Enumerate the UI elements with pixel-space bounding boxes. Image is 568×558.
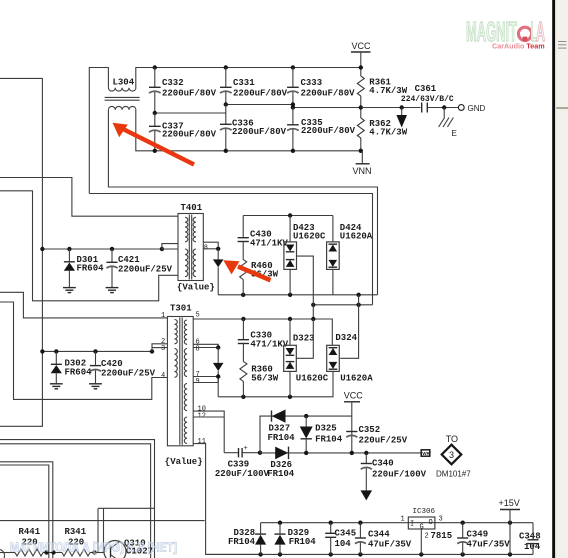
- svg-text:U1620A: U1620A: [340, 231, 373, 241]
- svg-text:4: 4: [161, 372, 165, 380]
- node VNN: [353, 151, 372, 176]
- svg-text:2200uF/80V: 2200uF/80V: [162, 130, 217, 140]
- svg-text:FR604: FR604: [77, 264, 105, 274]
- svg-text:C345: C345: [335, 528, 357, 538]
- diode D301 FR604: [64, 249, 104, 287]
- diode D302 FR604: [51, 351, 92, 383]
- svg-text:T401: T401: [181, 203, 203, 213]
- wire C430 top bus to D423/D424: [243, 215, 333, 217]
- svg-text:C344: C344: [368, 529, 390, 539]
- wire top VCC bus main segment: [136, 68, 361, 88]
- svg-text:I: I: [410, 521, 414, 529]
- wire D423 tap bus: [313, 304, 372, 306]
- diode D326 FR104: [267, 447, 295, 480]
- svg-text:471/1KV: 471/1KV: [250, 340, 288, 350]
- svg-text:220uF/25V: 220uF/25V: [359, 435, 408, 445]
- svg-text:O: O: [429, 519, 433, 527]
- svg-text:МАГНИТОЛА А [ИРG] Е.R [НЕТ]: МАГНИТОЛА А [ИРG] Е.R [НЕТ]: [10, 541, 177, 555]
- svg-text:220uF/100V: 220uF/100V: [215, 469, 270, 479]
- wire GND bus from R361/R362 junction: [361, 107, 421, 109]
- svg-text:9: 9: [196, 378, 200, 386]
- wire T301 pin4 loop: [0, 302, 167, 399]
- svg-text:12: 12: [198, 412, 206, 420]
- svg-text:FR104: FR104: [268, 433, 296, 443]
- svg-text:{Value}: {Value}: [177, 283, 215, 293]
- wire D302/C420 bus: [42, 350, 152, 352]
- wire T401 section bottom bus: [218, 294, 377, 296]
- wire C421/D301 bus: [42, 248, 161, 250]
- svg-text:IC306: IC306: [413, 508, 436, 516]
- ground below D301: [63, 288, 76, 293]
- capacitor C420 2200uF/25V: [90, 351, 156, 383]
- svg-text:3: 3: [439, 516, 443, 524]
- svg-text:VCC: VCC: [352, 41, 372, 51]
- svg-text:T301: T301: [170, 304, 192, 314]
- dual diode D324 U1620A: [327, 333, 374, 384]
- arrow down symbol at GND bus: [396, 108, 407, 128]
- junction dots top bus: [153, 65, 157, 69]
- dual diode D423 U1620C: [284, 216, 326, 320]
- right black frame border: [552, 0, 555, 558]
- svg-text:+: +: [244, 445, 248, 453]
- scrollbar thumb grip: [558, 42, 567, 49]
- wire rail to T401 pin1: [0, 178, 178, 217]
- wire left U-loop to T401 lower pin: [0, 191, 178, 301]
- svg-text:FR104: FR104: [228, 537, 256, 547]
- resistor R460 56/3W: [240, 259, 279, 294]
- svg-text:2200uF/80V: 2200uF/80V: [162, 88, 217, 98]
- regulator IC306 7815: [401, 508, 453, 554]
- connector TO DM101#7: [436, 434, 471, 478]
- capacitor C349 47uF/35V: [457, 523, 510, 555]
- wire top VCC bus left segment: [89, 68, 108, 194]
- wire bottom supply bus: [261, 522, 533, 524]
- svg-text:L304: L304: [113, 78, 135, 88]
- svg-text:2200uF/80V: 2200uF/80V: [233, 88, 288, 98]
- dual diode D323 U1620C: [284, 319, 329, 397]
- wire T301 pins 6,8 to arrow: [193, 344, 218, 347]
- wire left rail vertical x42: [0, 78, 42, 426]
- ground below D302: [50, 384, 63, 389]
- svg-text:TO: TO: [446, 434, 458, 444]
- wire step to T401 left pin: [162, 244, 178, 249]
- wire left rail to T301 pin1: [0, 292, 167, 318]
- wire T301 pin5 bus: [193, 319, 332, 345]
- resistor R441 220: [0, 527, 62, 556]
- transistor Q310 C1027: [104, 539, 153, 558]
- arrow down symbol at T301 output: [213, 348, 224, 397]
- diode D328 FR104: [228, 523, 266, 555]
- wire mid bus segment C332-C337 column: [155, 112, 226, 114]
- capacitor C337: [149, 113, 217, 151]
- node VCC (top): [351, 41, 371, 68]
- arrow down symbol below C340: [361, 490, 373, 500]
- wire T301 pin11 to bottom bus: [193, 444, 260, 555]
- annotation red arrow 1: [113, 123, 195, 165]
- transformer T401: [177, 203, 215, 293]
- dual diode D424 U1620A: [327, 216, 373, 295]
- svg-text:3: 3: [449, 450, 454, 460]
- svg-text:11: 11: [198, 438, 206, 446]
- capacitor C345 104: [325, 523, 356, 555]
- capacitor C331: [220, 68, 288, 105]
- svg-text:3: 3: [161, 345, 165, 353]
- inductor L304: [105, 78, 140, 110]
- capacitor C340 220uF/100V: [361, 453, 427, 491]
- wire bottom ground bus: [206, 553, 533, 555]
- svg-text:FR104: FR104: [289, 537, 317, 547]
- svg-text:DM101#7: DM101#7: [436, 469, 471, 478]
- capacitor C344 47uF/35V: [355, 523, 412, 555]
- svg-text:FR604: FR604: [65, 368, 93, 378]
- svg-text:2: 2: [425, 533, 429, 541]
- net label WR box: [421, 450, 430, 456]
- ground below C421: [106, 288, 119, 293]
- capacitor C332: [149, 68, 217, 114]
- wire bottom-left mid line: [0, 520, 205, 522]
- annotation red arrow 2: [223, 260, 270, 280]
- ground below C420: [89, 384, 102, 389]
- svg-text:C340: C340: [372, 459, 394, 469]
- svg-text:1: 1: [401, 516, 405, 524]
- transistor circle fragment at left edge: [0, 550, 5, 558]
- svg-text:U1620A: U1620A: [340, 374, 373, 384]
- capacitor C339 220uF/100V: [215, 445, 270, 479]
- svg-text:C333: C333: [301, 78, 323, 88]
- wire bottom-left rect R5: [0, 465, 49, 558]
- wire cap bank bottom bus: [136, 110, 362, 151]
- svg-text:1: 1: [161, 312, 165, 320]
- wire T301 section bottom bus: [218, 371, 333, 396]
- svg-text:7815: 7815: [431, 531, 453, 541]
- svg-text:C421: C421: [118, 255, 140, 265]
- watermark MAGNITOLA logo: [466, 16, 545, 51]
- node +15V: [499, 498, 521, 554]
- svg-text:E: E: [452, 129, 457, 138]
- svg-text:56/3W: 56/3W: [251, 374, 279, 384]
- svg-text:2200uF/80V: 2200uF/80V: [301, 88, 356, 98]
- wire T301 pins 10,12 to C339: [193, 411, 224, 453]
- terminal GND: [458, 104, 485, 113]
- svg-text:8: 8: [196, 345, 200, 353]
- svg-text:C339: C339: [228, 460, 250, 470]
- svg-text:C349: C349: [467, 529, 489, 539]
- svg-text:D324: D324: [335, 333, 357, 343]
- wire lower rail D326/C340: [260, 452, 421, 454]
- diode D329 FR104: [274, 523, 316, 555]
- wire bottom-left inner verticals: [97, 508, 99, 552]
- svg-text:C420: C420: [101, 359, 123, 369]
- capacitor C333: [287, 68, 355, 105]
- svg-text:5: 5: [196, 312, 200, 320]
- resistor R361 4.7K/3W: [357, 65, 407, 107]
- capacitor C352 220uF/25V: [346, 425, 408, 445]
- wire bottom-left rect R3: [0, 444, 151, 558]
- chassis ground E: [439, 108, 457, 139]
- wire step to T301 pins 2,3: [152, 344, 167, 352]
- resistor R362 4.7K/3W: [357, 105, 407, 151]
- svg-text:VNN: VNN: [353, 166, 372, 176]
- capacitor C336: [220, 105, 287, 151]
- capacitor C430 471/1KV: [238, 216, 289, 260]
- svg-text:104: 104: [335, 539, 352, 549]
- svg-text:C361: C361: [415, 84, 437, 94]
- wire T301 pins 7,9 join: [193, 377, 218, 383]
- scrollbar track: [555, 0, 568, 558]
- wire T401 secondary pins to arrow: [203, 242, 218, 249]
- wire D324 tap riser: [340, 295, 358, 359]
- pin number labels T301: [161, 312, 206, 447]
- svg-text:FR104: FR104: [315, 435, 343, 445]
- svg-text:D327: D327: [269, 423, 291, 433]
- wire bottom-left rect R4: [0, 462, 53, 558]
- svg-text:U1620C: U1620C: [293, 231, 326, 241]
- svg-text:471/1KV: 471/1KV: [250, 239, 288, 249]
- svg-text:2200uF/80V: 2200uF/80V: [232, 127, 287, 137]
- wire bottom-left rect R2: [0, 440, 155, 558]
- svg-text:+15V: +15V: [499, 498, 520, 508]
- wire top-bus outer loop to D423 tap bus: [89, 194, 372, 305]
- svg-text:C331: C331: [233, 78, 255, 88]
- svg-text:{Value}: {Value}: [165, 457, 203, 467]
- svg-text:U1620C: U1620C: [296, 374, 329, 384]
- capacitor C421 2200uF/25V: [106, 249, 172, 287]
- diode D325 FR104: [300, 416, 343, 453]
- svg-text:R341: R341: [65, 527, 87, 537]
- wire L304 outer loop to D424 bottom: [108, 110, 377, 295]
- svg-text:220uF/100V: 220uF/100V: [372, 469, 427, 479]
- resistor R341 220: [62, 527, 104, 556]
- svg-text:VCC: VCC: [344, 390, 364, 400]
- wire mid bus segment C333-R361 column: [293, 107, 361, 109]
- svg-text:C332: C332: [162, 78, 184, 88]
- capacitor C361 224/63V/B/C: [401, 84, 459, 112]
- transformer T301: [165, 304, 203, 467]
- svg-text:47uF/35V: 47uF/35V: [467, 540, 511, 550]
- svg-text:C352: C352: [359, 425, 381, 435]
- scrollbar thumb: [556, 0, 568, 107]
- svg-text:2200uF/25V: 2200uF/25V: [118, 265, 173, 275]
- svg-text:WR: WR: [422, 451, 430, 456]
- capacitor C348 104: [519, 523, 541, 555]
- svg-text:FR104: FR104: [267, 469, 295, 479]
- svg-text:R441: R441: [19, 527, 41, 537]
- node VCC (middle): [344, 390, 364, 453]
- svg-text:D325: D325: [315, 423, 337, 433]
- svg-text:47uF/35V: 47uF/35V: [368, 540, 412, 550]
- svg-text:D323: D323: [293, 334, 315, 344]
- capacitor C330 471/1KV: [238, 319, 289, 361]
- arrow down symbol at T401 output: [213, 249, 224, 295]
- svg-text:CarAudio Team: CarAudio Team: [492, 42, 545, 51]
- svg-text:GND: GND: [468, 104, 486, 113]
- diode D327 FR104: [268, 410, 296, 443]
- resistor R360 56/3W: [240, 361, 279, 396]
- svg-text:4.7K/3W: 4.7K/3W: [369, 128, 407, 138]
- svg-text:2200uF/25V: 2200uF/25V: [101, 368, 156, 378]
- wire mid bus segment C331-C336 column: [226, 104, 293, 106]
- wire D327 upper rail: [260, 416, 352, 453]
- capacitor C335: [287, 108, 356, 151]
- svg-text:2200uF/80V: 2200uF/80V: [301, 126, 356, 136]
